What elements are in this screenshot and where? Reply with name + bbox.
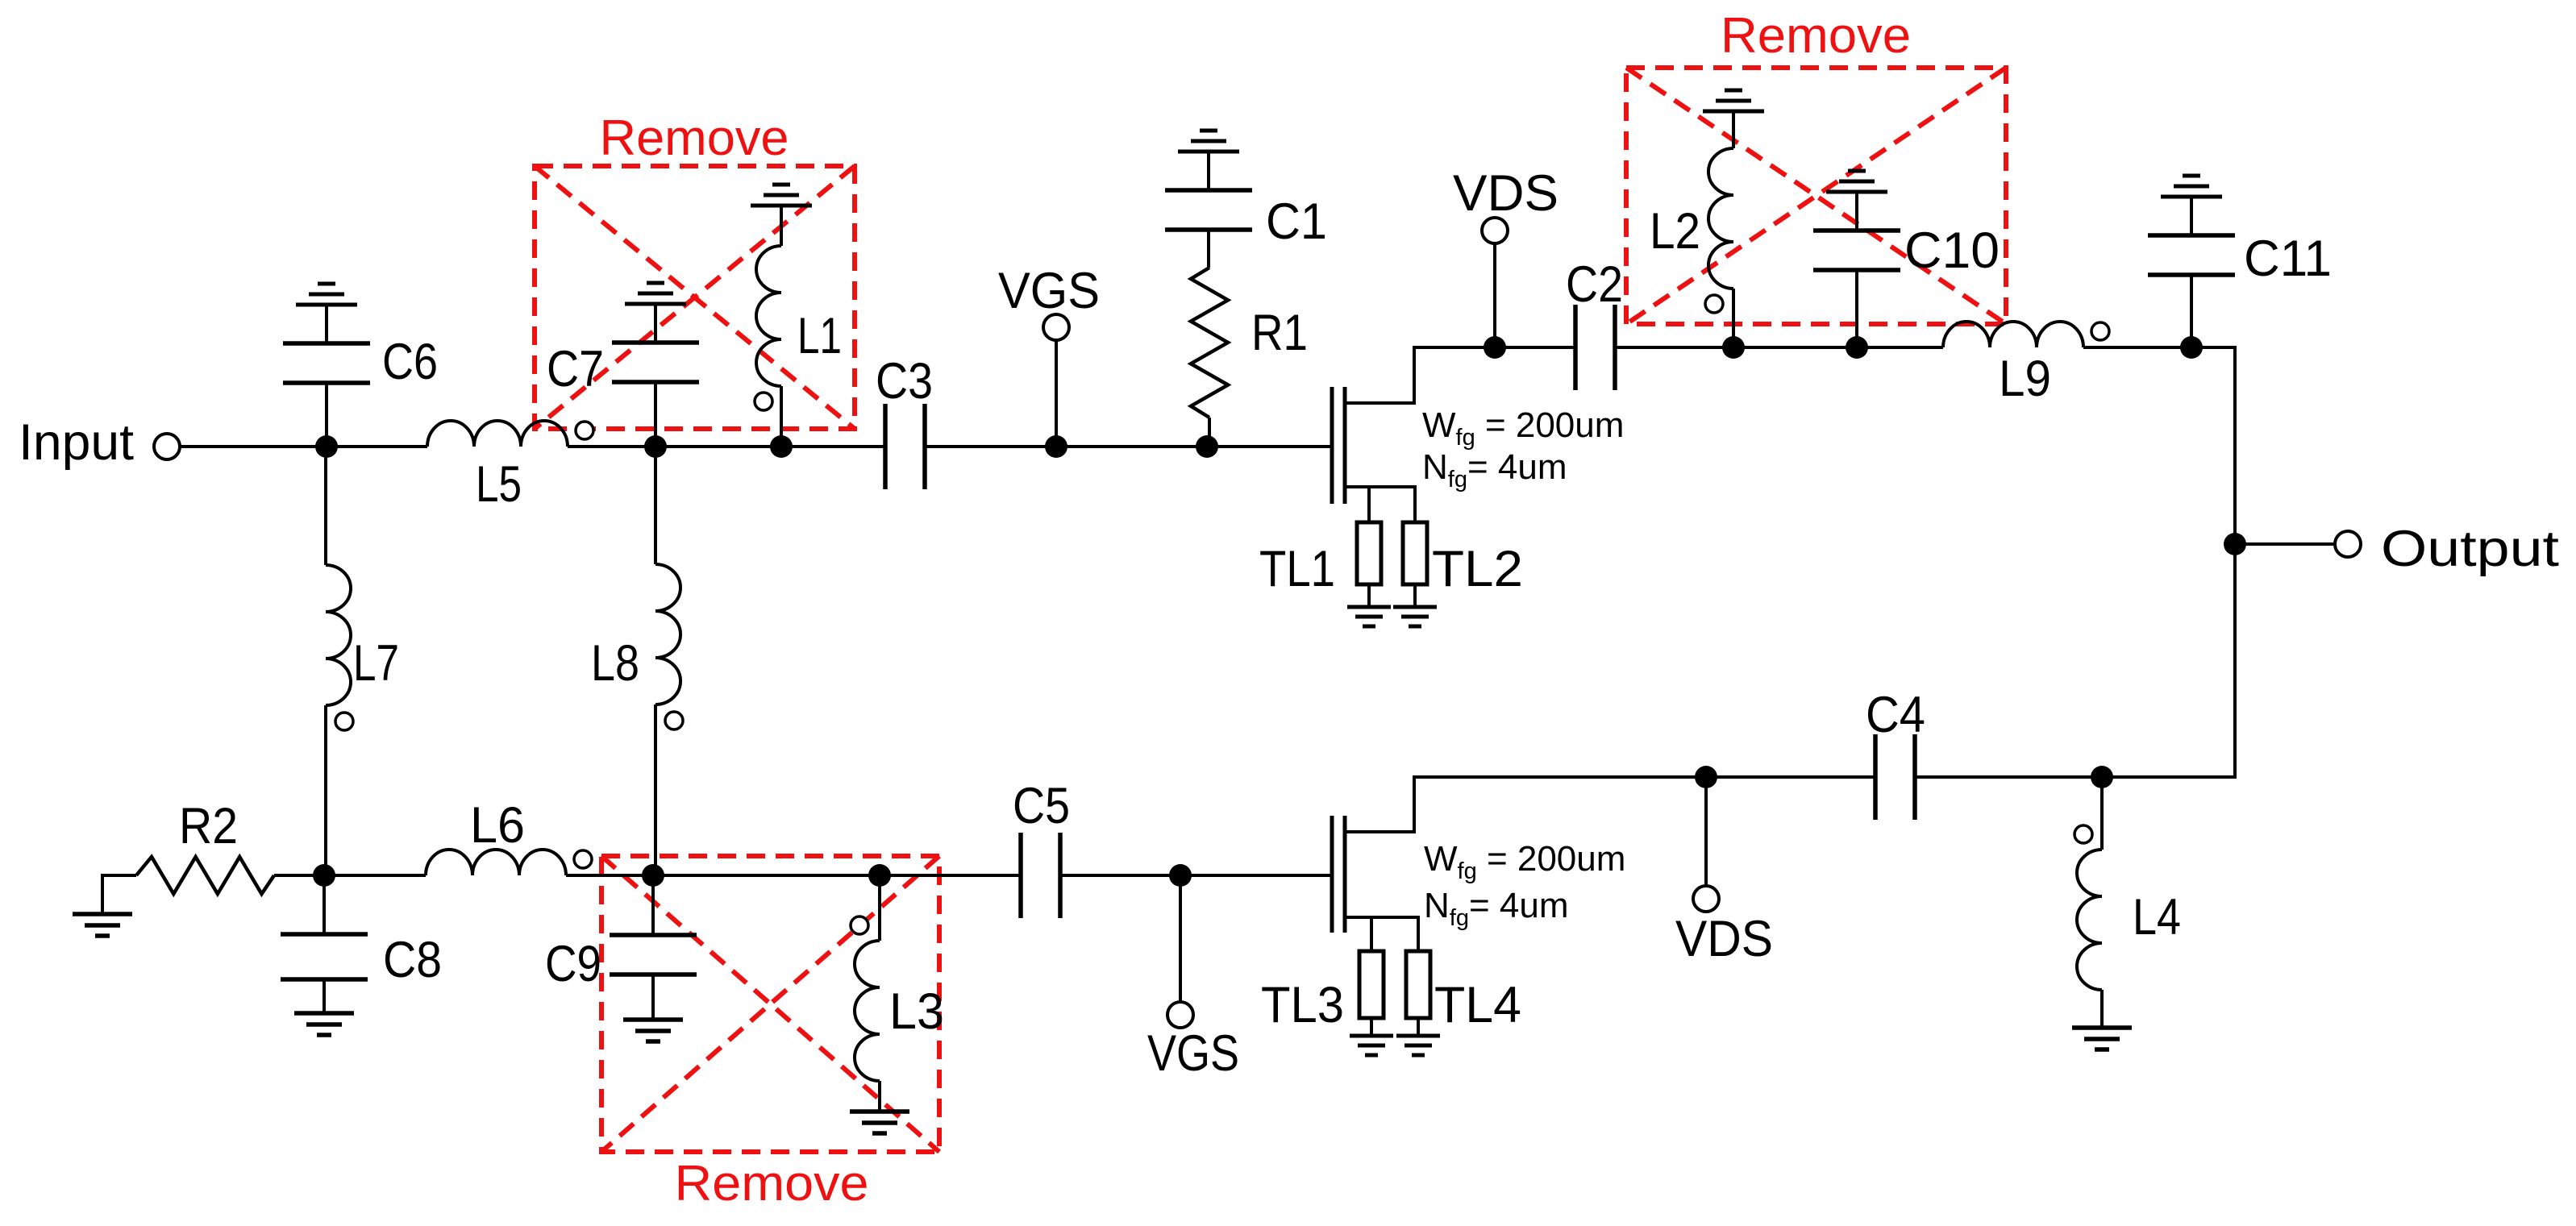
svg-text:C10: C10 xyxy=(1904,222,2000,279)
svg-text:C6: C6 xyxy=(382,334,438,390)
svg-text:Remove: Remove xyxy=(675,1156,869,1211)
svg-text:Output: Output xyxy=(2381,521,2560,577)
svg-text:L3: L3 xyxy=(889,983,944,1040)
svg-text:TL2: TL2 xyxy=(1432,541,1523,597)
svg-text:C4: C4 xyxy=(1866,687,1925,743)
svg-text:Remove: Remove xyxy=(600,110,789,166)
svg-text:C2: C2 xyxy=(1566,256,1623,313)
svg-text:TL4: TL4 xyxy=(1434,977,1521,1033)
svg-text:C7: C7 xyxy=(547,341,604,397)
svg-text:L5: L5 xyxy=(476,456,522,513)
svg-text:Remove: Remove xyxy=(1721,8,1911,64)
svg-text:L7: L7 xyxy=(353,635,399,692)
svg-text:TL1: TL1 xyxy=(1259,541,1335,597)
svg-text:L4: L4 xyxy=(2133,889,2181,945)
svg-text:L1: L1 xyxy=(797,308,842,364)
svg-text:C3: C3 xyxy=(876,353,933,409)
svg-text:L8: L8 xyxy=(591,635,639,692)
svg-text:L6: L6 xyxy=(470,797,525,854)
svg-text:C1: C1 xyxy=(1266,193,1327,250)
svg-text:Wfg = 200um: Wfg = 200um xyxy=(1422,405,1624,451)
svg-text:Wfg = 200um: Wfg = 200um xyxy=(1424,839,1625,884)
svg-text:L2: L2 xyxy=(1650,203,1700,260)
svg-text:VDS: VDS xyxy=(1675,911,1773,967)
svg-text:TL3: TL3 xyxy=(1261,977,1344,1033)
svg-text:R2: R2 xyxy=(179,798,238,854)
svg-text:VGS: VGS xyxy=(1147,1025,1239,1082)
svg-text:VGS: VGS xyxy=(998,263,1100,319)
svg-text:C9: C9 xyxy=(545,936,601,992)
svg-text:C11: C11 xyxy=(2244,231,2332,287)
svg-text:C8: C8 xyxy=(383,932,442,988)
svg-text:L9: L9 xyxy=(1999,351,2051,407)
svg-text:VDS: VDS xyxy=(1453,165,1559,222)
svg-text:Nfg= 4um: Nfg= 4um xyxy=(1422,447,1567,492)
svg-text:R1: R1 xyxy=(1251,305,1308,361)
svg-text:C5: C5 xyxy=(1013,778,1070,834)
svg-text:Input: Input xyxy=(19,414,135,471)
svg-text:Nfg= 4um: Nfg= 4um xyxy=(1424,886,1568,931)
